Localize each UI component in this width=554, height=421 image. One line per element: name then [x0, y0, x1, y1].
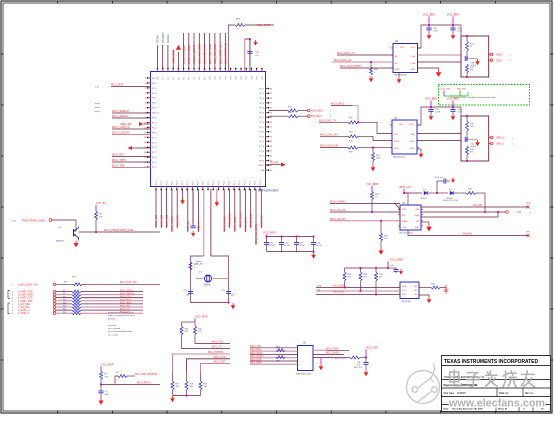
output filter box 1: [461, 35, 489, 78]
ground arrow reset circuit: [98, 398, 103, 405]
svg-text:VCC_BRD: VCC_BRD: [447, 97, 460, 101]
svg-text:MCU_TCK: MCU_TCK: [214, 356, 226, 359]
svg-text:x_I2C_SCL: x_I2C_SCL: [18, 307, 30, 309]
header JP1 label: [72, 277, 78, 279]
U1 right pins: [258, 88, 272, 172]
svg-text:TXD: TXD: [402, 227, 407, 229]
ground arrow below U2: [397, 73, 402, 84]
U3 output wires to filter box 2: [417, 134, 461, 141]
svg-text:32kHz: 32kHz: [204, 285, 211, 287]
svg-text:GND: GND: [415, 227, 420, 229]
capacitor C24: [311, 236, 322, 252]
svg-text:0.1uF: 0.1uF: [435, 112, 441, 114]
svg-text:RXD: RXD: [402, 209, 407, 211]
title block date row: [444, 405, 545, 412]
capacitor C23: [294, 236, 305, 252]
svg-text:P11: P11: [215, 76, 217, 79]
svg-text:GND: GND: [376, 158, 381, 160]
svg-text:LIN: LIN: [416, 221, 420, 223]
svg-text:x_BSL_SIGN_VW: x_BSL_SIGN_VW: [18, 283, 38, 286]
resistor R42 pullup: [359, 267, 368, 291]
svg-text:VCC_BRD: VCC_BRD: [447, 13, 460, 17]
reset net MCU_RST wire: [101, 381, 160, 384]
svg-text:www.elecfans.com: www.elecfans.com: [448, 398, 545, 410]
svg-text:MCU_RIT: MCU_RIT: [112, 152, 124, 156]
svg-text:P5: P5: [184, 77, 186, 79]
svg-text:P0: P0: [157, 77, 159, 79]
svg-text:CRL-: CRL-: [496, 58, 502, 62]
green wire jumper: [444, 92, 468, 96]
crystal Y1 symbol: [196, 261, 229, 287]
svg-text:MCU_RST_PWRON: MCU_RST_PWRON: [135, 373, 157, 376]
svg-text:73: 73: [270, 122, 272, 124]
svg-text:P7: P7: [194, 77, 196, 79]
VCORE net right of U1: [266, 161, 286, 166]
svg-text:1k: 1k: [375, 197, 377, 199]
svg-text:MCU_TCK_VW: MCU_TCK_VW: [120, 281, 137, 284]
svg-text:VCORE: VCORE: [270, 161, 279, 164]
resistor R5 in crystal circuit: [189, 262, 198, 270]
svg-text:70: 70: [270, 136, 272, 138]
svg-text:47k: 47k: [470, 70, 473, 72]
wire from port to Q1 gate: [52, 220, 76, 229]
svg-text:x_GPIO_2: x_GPIO_2: [18, 313, 29, 315]
svg-text:MCU_DAC_PWM: MCU_DAC_PWM: [340, 64, 361, 68]
svg-text:BSS138: BSS138: [56, 241, 64, 243]
svg-text:P4: P4: [178, 77, 180, 79]
svg-text:P3_5: P3_5: [224, 181, 226, 185]
svg-text:0.1uF: 0.1uF: [457, 112, 463, 114]
resistor R19 pulldown: [199, 372, 208, 396]
svg-text:CRL-2: CRL-2: [496, 142, 504, 146]
svg-text:P3_0: P3_0: [156, 181, 158, 185]
svg-text:MCU_RST: MCU_RST: [111, 82, 124, 86]
svg-text:SCLK: SCLK: [394, 141, 400, 143]
rose feed wire upper left of U3: [331, 103, 359, 124]
JTAG net wires with labels: [182, 335, 231, 349]
svg-text:P6: P6: [189, 77, 191, 79]
svg-text:P16: P16: [241, 76, 243, 79]
svg-text:x_UART_RXD: x_UART_RXD: [18, 294, 33, 297]
resistor R17 pulldown: [171, 372, 180, 396]
svg-text:1pF: 1pF: [231, 295, 235, 297]
svg-text:P3_3: P3_3: [172, 181, 174, 185]
svg-text:MCU_TX: MCU_TX: [212, 345, 222, 348]
VCC_MSP decoupling bank C21-C24: [263, 231, 314, 252]
pullup rail VCC_MSP for U6: [345, 257, 404, 269]
VCC_MSP node right of U5: [365, 346, 378, 358]
svg-text:WAKE: WAKE: [402, 220, 408, 223]
left side nets of U1: [95, 82, 151, 167]
U5 right nets: [313, 347, 349, 360]
diode D2: [447, 189, 466, 200]
capacitor C25 on bottom bundle: [191, 190, 202, 237]
svg-text:VCC_BRD: VCC_BRD: [366, 182, 379, 186]
svg-text:MCLK_3V3MSP: MCLK_3V3MSP: [187, 44, 191, 64]
output port CRL+ 1: [489, 53, 512, 57]
U5 left input bundle: [250, 346, 298, 365]
DVCC AVCC decoupling C62: [245, 38, 260, 71]
svg-text:MCU_SIMO: MCU_SIMO: [233, 217, 237, 231]
resistor R14 pullup: [180, 326, 189, 335]
svg-text:MCU_P4WR: MCU_P4WR: [170, 216, 174, 231]
resistor R15 pullup: [194, 326, 203, 335]
U4 wake wire: [421, 212, 498, 217]
svg-text:68: 68: [270, 146, 272, 148]
U3 input net MCU_DAC_RX with series resistor R27: [320, 132, 392, 143]
svg-text:MCU_TA2: MCU_TA2: [260, 215, 264, 227]
resistor R18 pulldown: [185, 372, 194, 396]
svg-text:MCU_SDA: MCU_SDA: [120, 301, 131, 304]
svg-text:0.1uF: 0.1uF: [300, 245, 306, 247]
svg-text:P9: P9: [204, 77, 206, 79]
svg-text:x_GPIO_1: x_GPIO_1: [18, 310, 29, 312]
U4 input net MCU_LIN_RX: [330, 218, 400, 221]
svg-text:MCU_IO1: MCU_IO1: [120, 309, 131, 311]
svg-text:P3_7: P3_7: [192, 181, 194, 185]
svg-text:MCU_TB1: MCU_TB1: [154, 214, 158, 227]
svg-text:17: 17: [144, 157, 146, 159]
svg-text:VCC_MSP: VCC_MSP: [263, 231, 276, 235]
svg-text:10k: 10k: [384, 238, 387, 240]
svg-text:1nF: 1nF: [105, 394, 109, 396]
svg-text:MCU_AD1_BRD: MCU_AD1_BRD: [203, 44, 207, 64]
svg-text:47k: 47k: [470, 152, 473, 154]
LIN transceiver U4: [398, 203, 423, 235]
svg-text:Mod. Date:: Mod. Date:: [444, 392, 456, 395]
title block: [442, 356, 551, 412]
ground arrow on bottom bundle left: [180, 198, 185, 204]
svg-text:P17: P17: [246, 76, 248, 79]
svg-text:16: 16: [144, 152, 146, 154]
svg-text:66: 66: [270, 156, 272, 158]
svg-text:R14: R14: [63, 312, 66, 314]
op-amp U2 TLV2211: [389, 41, 420, 77]
svg-text:MCU_TA1_CCR2: MCU_TA1_CCR2: [254, 223, 258, 244]
capacitor C40 with VCC_BRD above U3: [447, 97, 463, 121]
port PWR_PDWN input: [12, 219, 52, 223]
ground arrow near C62: [253, 40, 257, 46]
resistor R23 in filter box 1: [466, 36, 475, 59]
svg-text:VCC_BRD: VCC_BRD: [423, 13, 436, 17]
resistor R29 to ground below U3 inputs: [371, 147, 381, 172]
svg-text:GIO_MCK: GIO_MCK: [311, 109, 323, 113]
svg-text:PD_RAC: PD_RAC: [311, 114, 322, 118]
ground arrow right below U4: [421, 222, 432, 232]
pulldown ground rail: [170, 395, 200, 403]
svg-text:VCC_PWR: VCC_PWR: [256, 23, 270, 27]
svg-text:x/o = used: x/o = used: [108, 334, 118, 336]
svg-text:DAC8550-Q1: DAC8550-Q1: [394, 74, 407, 77]
svg-text:MCU_AD0_BRD: MCU_AD0_BRD: [198, 44, 202, 64]
svg-text:defined:: defined:: [108, 318, 116, 320]
ground arrow below U2 right pin: [418, 68, 442, 77]
svg-text:SYNC: SYNC: [394, 148, 400, 150]
svg-text:MCU_UCLK: MCU_UCLK: [244, 216, 248, 231]
svg-text:4: 4: [145, 93, 146, 95]
svg-text:76: 76: [270, 108, 272, 110]
watermark chinese characters: [450, 370, 535, 387]
svg-text:GND: GND: [395, 69, 400, 71]
svg-text:72: 72: [270, 127, 272, 129]
svg-text:SMCLK_MSPIO: SMCLK_MSPIO: [192, 45, 196, 64]
series resistor RN2 on U5 input: [276, 356, 285, 363]
ribbon row resistor R13 net MCU_IO1: [12, 309, 143, 313]
svg-text:VBAK_MSP: VBAK_MSP: [171, 49, 175, 64]
svg-text:R8: R8: [63, 293, 65, 295]
ground elbow in filter box 1: [467, 59, 480, 66]
watermark url text: [448, 398, 545, 410]
svg-text:P3_2: P3_2: [208, 181, 210, 185]
svg-text:67: 67: [270, 151, 272, 153]
svg-text:P3_3: P3_3: [213, 181, 215, 185]
svg-text:x: x: [470, 197, 471, 199]
svg-text:P3_4: P3_4: [177, 181, 179, 185]
VBAT_LIN net label: [399, 186, 411, 194]
svg-text:BQ32000: BQ32000: [402, 301, 412, 303]
svg-text:XOUT: XOUT: [258, 165, 264, 167]
svg-text:47k: 47k: [364, 277, 367, 279]
group bracket bottom: [8, 303, 10, 314]
svg-text:MCU_VEREF_IO: MCU_VEREF_IO: [224, 43, 228, 64]
VCC_5V pullup resistor R1: [95, 201, 107, 232]
svg-text:VDD: VDD: [399, 124, 404, 126]
svg-text:x_UART_RTS: x_UART_RTS: [18, 300, 33, 303]
svg-text:BRL_0.8: BRL_0.8: [354, 367, 363, 369]
svg-text:P3_1: P3_1: [203, 181, 205, 185]
transistor Q1: [56, 227, 79, 243]
VREF_B3 net with right arrow: [120, 122, 151, 126]
resistor R43 pullup: [375, 267, 384, 294]
svg-text:MCU_TA0: MCU_TA0: [175, 215, 179, 227]
svg-text:MCU_TRST%: MCU_TRST%: [208, 351, 224, 354]
svg-text:LIN_RXD: LIN_RXD: [462, 232, 472, 235]
svg-text:74: 74: [270, 117, 272, 119]
svg-text:2: 2: [145, 83, 146, 85]
crystal Y1 32kHz circuit: [191, 189, 229, 303]
svg-text:MCU_VREF_IN: MCU_VREF_IN: [218, 45, 222, 64]
svg-text:1: 1: [145, 78, 146, 80]
title block company name: [444, 359, 538, 365]
svg-text:GND: GND: [402, 294, 407, 296]
ferrite FB1 and VCC_PWR net: [228, 19, 274, 72]
svg-text:MCU_X1: MCU_X1: [197, 220, 201, 231]
ground arrow below C16: [364, 370, 369, 376]
net VRU_IN2 label in green box: [457, 89, 467, 97]
svg-text:MCU_RST: MCU_RST: [214, 361, 226, 364]
svg-text:P20: P20: [262, 76, 264, 79]
svg-text:B0520: B0520: [421, 198, 426, 200]
svg-text:x_UART_CTS: x_UART_CTS: [18, 297, 33, 300]
ribbon row resistor R14 net MCU_IO2: [12, 312, 143, 316]
svg-text:TPIC1021A-Q1: TPIC1021A-Q1: [399, 232, 414, 235]
LIN bus port: [421, 193, 532, 214]
svg-text:P3_1: P3_1: [244, 181, 246, 185]
svg-text:P3_2: P3_2: [166, 181, 168, 185]
U1 top pins: [157, 68, 264, 80]
svg-text:MCU_DAC_RX: MCU_DAC_RX: [320, 132, 338, 136]
svg-text:VDD: VDD: [400, 47, 405, 49]
svg-text:R10: R10: [63, 299, 66, 301]
reset net with resistor R3: [101, 372, 157, 385]
svg-text:P13: P13: [225, 76, 227, 79]
U2 input net MCU_DAC_TX: [337, 51, 393, 55]
wires below U1 with net labels: [154, 189, 263, 245]
svg-text:80: 80: [270, 88, 272, 90]
svg-text:MCU_CTS: MCU_CTS: [120, 296, 131, 298]
svg-text:P19: P19: [257, 76, 259, 79]
svg-text:P3_0: P3_0: [198, 181, 200, 185]
svg-text:RN1: RN1: [276, 347, 280, 349]
svg-text:P3_4: P3_4: [218, 181, 220, 185]
svg-text:MCU_SOMI: MCU_SOMI: [238, 213, 242, 227]
VCC_MSP for JTAG pullups: [182, 314, 208, 326]
svg-text:1pF: 1pF: [186, 295, 190, 297]
svg-text:MCU_SWCLK: MCU_SWCLK: [112, 114, 129, 118]
U1 left pins: [144, 77, 160, 169]
ribbon row resistor R8 net MCU_URXD0: [12, 293, 143, 297]
svg-text:MCU_TB2: MCU_TB2: [160, 214, 164, 227]
svg-text:P10: P10: [210, 76, 212, 79]
notes text block: [108, 311, 135, 336]
U3 supply rail wire: [417, 106, 461, 125]
svg-text:47k: 47k: [198, 331, 201, 333]
capacitor C45 near U6: [388, 265, 403, 275]
svg-text:VCC_BRD: VCC_BRD: [425, 97, 438, 101]
svg-text:75: 75: [270, 112, 272, 114]
svg-text:DIN: DIN: [394, 134, 398, 136]
svg-text:R9: R9: [63, 296, 65, 298]
svg-text:LCD_BL: LCD_BL: [186, 221, 190, 231]
capacitor C22: [279, 236, 290, 252]
junction and ground of crystal circuit: [228, 302, 236, 310]
svg-text:MC-406: MC-406: [196, 264, 204, 266]
magenta stub and ground below U5: [319, 358, 324, 371]
svg-text:HIGH VOLT LINE: HIGH VOLT LINE: [443, 200, 458, 202]
power arrow above U1: [176, 45, 181, 50]
svg-text:x_UART_TXD: x_UART_TXD: [18, 291, 33, 294]
svg-text:x/o = uncommitted resistor: x/o = uncommitted resistor: [108, 330, 133, 333]
svg-text:VCXO_IN2: VCXO_IN2: [440, 89, 452, 91]
U2 input net MCU_DAC_PWM: [340, 64, 393, 68]
svg-text:63: 63: [270, 170, 272, 172]
capacitor C38 in filter box 1: [465, 56, 477, 67]
svg-text:0.1uF: 0.1uF: [317, 245, 323, 247]
svg-text:VCC_MSP: VCC_MSP: [390, 257, 403, 261]
ribbon row resistor R11 net MCU_SDA: [12, 301, 143, 306]
capacitor C35 with VCC_BRD: [423, 13, 439, 40]
svg-text:XT2OUT: XT2OUT: [161, 32, 165, 43]
svg-text:o=def: o=def: [95, 107, 100, 109]
svg-text:MCU_STE: MCU_STE: [249, 214, 253, 227]
svg-text:SHD: SHD: [411, 69, 416, 71]
svg-text:IN-: IN-: [395, 63, 398, 65]
svg-text:VRU_IN2: VRU_IN2: [457, 89, 467, 91]
svg-text:INH: INH: [416, 209, 420, 211]
svg-text:CRL+: CRL+: [496, 53, 503, 57]
U3 input net MCU_DAC_FB with series resistor R28: [320, 144, 392, 154]
svg-text:MCU_CAB_RX: MCU_CAB_RX: [112, 130, 130, 134]
U6 bus wires: [316, 284, 400, 295]
net MCU_PWR_PDWN wire: [79, 229, 161, 233]
svg-text:GND: GND: [410, 148, 415, 150]
U4 input net MCU_SOMI: [330, 200, 400, 209]
series resistor RN1 on U5 input: [276, 347, 285, 352]
ribbon row resistor R10 net MCU_RTS: [12, 299, 143, 303]
svg-text:13: 13: [144, 137, 146, 139]
resistor R2 reset pullup: [100, 371, 109, 391]
svg-text:MCU_DAC_AV: MCU_DAC_AV: [334, 58, 352, 62]
output filter box 2: [461, 115, 489, 162]
U2 supply rail wire: [418, 25, 462, 48]
svg-text:MCU_RST%: MCU_RST%: [137, 381, 152, 384]
svg-text:MCU_URXD0: MCU_URXD0: [120, 293, 134, 295]
svg-text:1: 1: [389, 47, 390, 49]
svg-text:SIZE: A4: SIZE: A4: [499, 392, 509, 395]
svg-text:RN2: RN2: [276, 361, 280, 363]
svg-text:P3: P3: [173, 77, 175, 79]
output port CRL- 2: [489, 142, 514, 146]
svg-text:0.1uF: 0.1uF: [433, 31, 439, 33]
capacitor C39 with VCC_BRD above U3: [425, 97, 441, 121]
ground arrow below U3 output pin: [417, 149, 423, 158]
svg-text:x/o = unused: x/o = unused: [108, 328, 121, 330]
svg-text:P12: P12: [220, 76, 222, 79]
title block rows text: [444, 377, 535, 397]
resistor R41 pullup: [343, 268, 352, 288]
svg-text:47k: 47k: [348, 277, 351, 279]
svg-text:XIN: XIN: [261, 170, 265, 172]
svg-text:MCU_TxD: MCU_TxD: [212, 340, 223, 343]
svg-text:12: 12: [144, 132, 146, 134]
LIN INH net with test point TP4: [421, 203, 531, 209]
svg-text:MCU_SDA: MCU_SDA: [333, 284, 345, 287]
svg-text:VCC_MSP: VCC_MSP: [366, 346, 378, 349]
svg-text:MCU_TRTX: MCU_TRTX: [112, 158, 126, 162]
bar ground at U6 right: [444, 285, 449, 293]
svg-text:0.1uF: 0.1uF: [285, 245, 291, 247]
svg-text:47k: 47k: [379, 277, 382, 279]
svg-text:MCU_TAB: MCU_TAB: [112, 163, 124, 167]
svg-text:77: 77: [270, 103, 272, 105]
svg-text:MCU_DTR%: MCU_DTR%: [335, 358, 347, 360]
svg-text:MCU_UCB0: MCU_UCB0: [228, 212, 232, 227]
svg-text:VCC_MSP: VCC_MSP: [101, 362, 114, 366]
svg-text:P3_7: P3_7: [234, 181, 236, 185]
svg-text:P3_6: P3_6: [187, 181, 189, 185]
capacitor C36 with VCC_BRD: [447, 13, 463, 40]
svg-text:o=ghi: o=ghi: [95, 111, 100, 113]
capacitor C26 crystal left: [183, 290, 193, 297]
svg-text:R7: R7: [63, 290, 65, 292]
svg-text:3: 3: [145, 88, 146, 90]
svg-text:MCU_PWR_PDWN_SHDL: MCU_PWR_PDWN_SHDL: [104, 229, 135, 232]
U1 bottom pins: [155, 181, 262, 190]
svg-text:79: 79: [270, 93, 272, 95]
svg-text:MCU_DAC_TX: MCU_DAC_TX: [337, 51, 355, 55]
svg-text:MCU_TxD0: MCU_TxD0: [326, 347, 339, 350]
svg-text:MCU_SCL: MCU_SCL: [120, 306, 131, 308]
svg-text:MCU_UTXD0: MCU_UTXD0: [120, 290, 134, 292]
svg-text:R11: R11: [63, 303, 66, 305]
note text high volt: [443, 200, 458, 202]
ribbon row resistor R7 net MCU_UTXD0: [12, 290, 143, 294]
svg-text:DVCC1: DVCC1: [152, 113, 160, 115]
svg-text:P3_4: P3_4: [260, 181, 262, 185]
svg-text:OUA: OUA: [410, 133, 415, 136]
svg-text:MCU_AD2_BRD: MCU_AD2_BRD: [208, 44, 212, 64]
ribbon row resistor R9 net MCU_CTS: [12, 296, 143, 300]
